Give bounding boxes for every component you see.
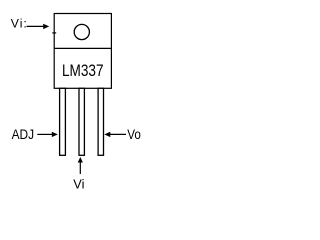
- svg-text:Vi:: Vi:: [11, 17, 28, 31]
- svg-text:LM337: LM337: [62, 62, 104, 80]
- svg-text:Vo: Vo: [127, 127, 141, 142]
- svg-text:Vi: Vi: [73, 177, 84, 192]
- svg-text:ADJ: ADJ: [12, 127, 34, 142]
